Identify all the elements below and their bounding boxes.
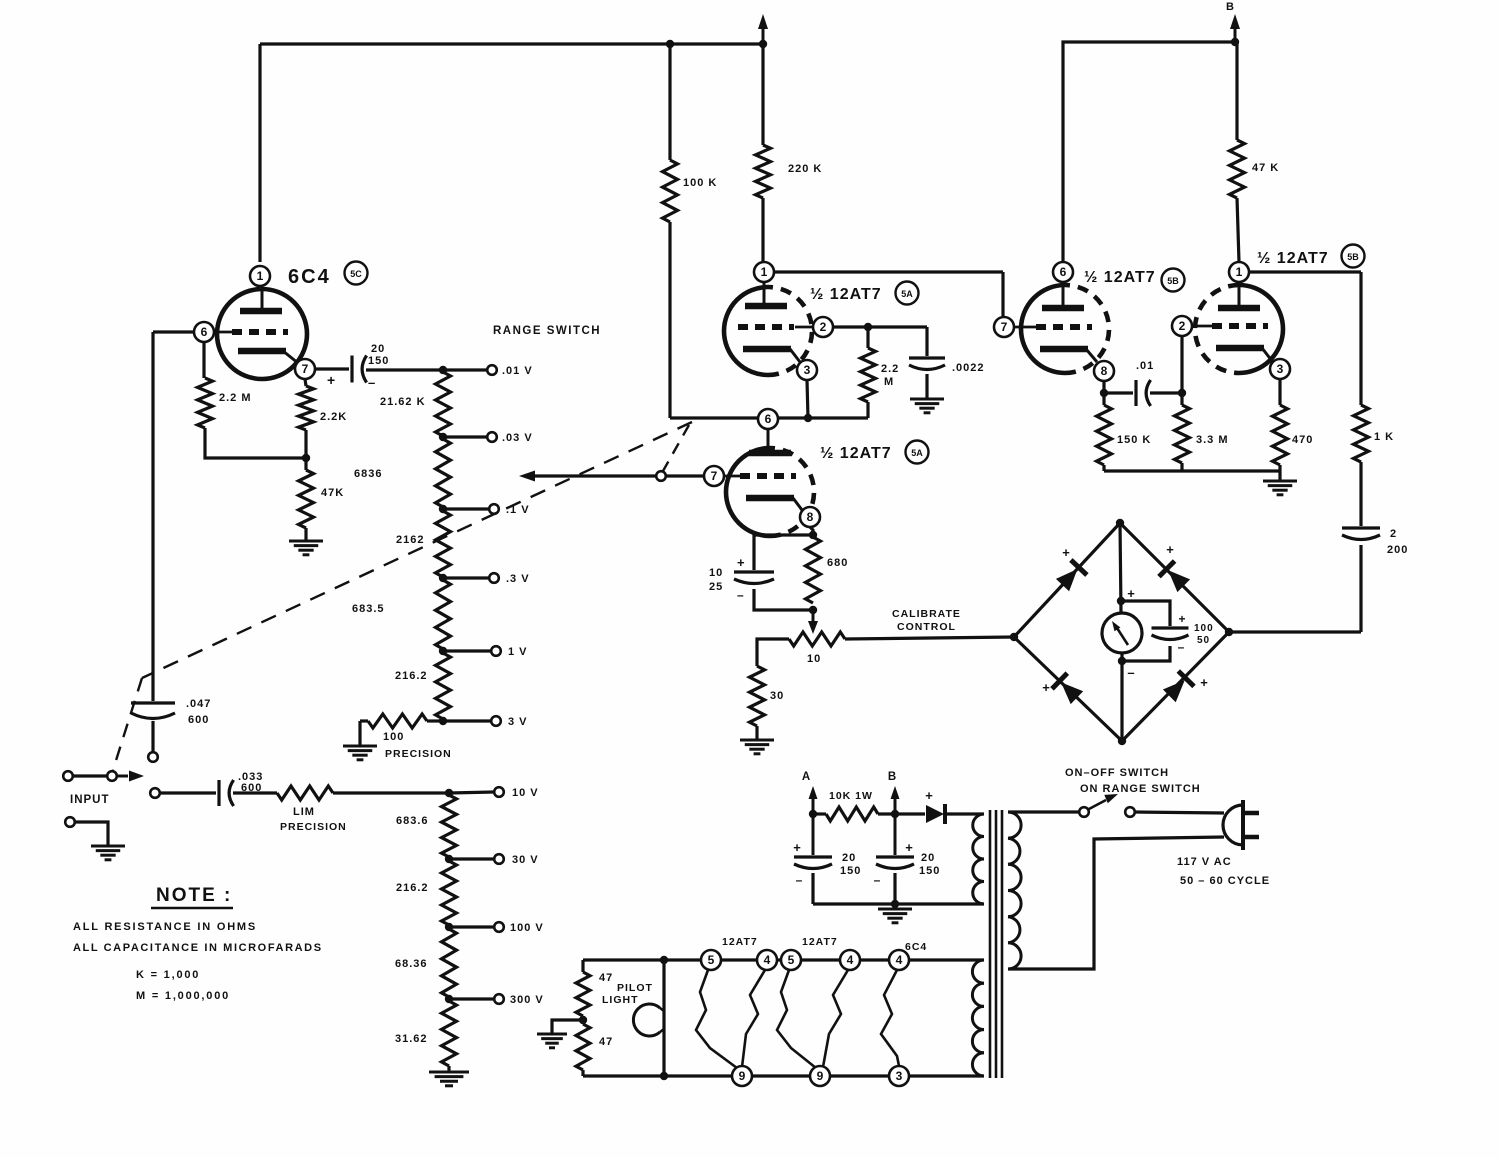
svg-text:+: +	[793, 840, 801, 855]
wire V3A plate to B+	[1063, 42, 1235, 262]
ground input	[91, 845, 125, 848]
wire meter bottom	[1120, 653, 1123, 661]
wire tap 3V	[443, 719, 491, 722]
svg-text:47: 47	[599, 972, 613, 984]
diode D5 rectifier	[926, 805, 944, 823]
wire primary top to switch	[1008, 810, 1079, 813]
wire pilot vertical	[662, 960, 665, 1076]
resistor 47K plate	[1235, 42, 1238, 140]
wire V3A cathode down	[1102, 381, 1105, 405]
svg-text:683.5: 683.5	[352, 603, 385, 615]
terminal 10V branch	[150, 788, 160, 798]
resistor 216.2	[436, 653, 451, 719]
wire input to wiper	[73, 774, 108, 777]
node B junction	[1231, 38, 1239, 46]
resistor 10K 1W	[826, 807, 878, 821]
label V3A 5B circle	[1162, 269, 1185, 292]
V3A pin 7	[994, 317, 1014, 337]
svg-text:½ 12AT7: ½ 12AT7	[820, 445, 892, 462]
terminal input ground	[65, 817, 75, 827]
heater pin 3 U1	[889, 1066, 909, 1086]
svg-text:.047: .047	[186, 698, 211, 710]
svg-text:+: +	[925, 788, 933, 803]
wire PS bottom bus	[813, 902, 984, 905]
svg-text:.3 V: .3 V	[506, 573, 530, 585]
svg-text:½ 12AT7: ½ 12AT7	[1084, 269, 1156, 286]
V2B pin 8	[800, 507, 820, 527]
heater pin 4 U1	[889, 950, 909, 970]
terminal 1V	[491, 646, 501, 656]
V3B pin 2	[1172, 316, 1192, 336]
node 3V junction	[439, 717, 447, 725]
node 100V junction	[445, 923, 453, 931]
V3A pin 8	[1094, 361, 1114, 381]
node pilot bottom	[660, 1072, 668, 1080]
meter M1	[1102, 613, 1142, 653]
wire V2A plate to V3A grid	[774, 270, 1003, 273]
svg-text:1: 1	[761, 265, 768, 279]
svg-text:20: 20	[921, 852, 935, 864]
diode D1 upper-left	[1056, 569, 1078, 591]
svg-text:2: 2	[820, 320, 827, 334]
svg-text:7: 7	[1001, 320, 1008, 334]
svg-text:220 K: 220 K	[788, 163, 822, 175]
wire V2B grid left with arrow	[534, 474, 704, 477]
V2A pin 3	[797, 360, 817, 380]
svg-text:PRECISION: PRECISION	[385, 748, 452, 760]
wire meter bottom to bridge bottom	[1120, 661, 1123, 741]
terminal .1V	[489, 504, 499, 514]
svg-text:1 K: 1 K	[1374, 431, 1394, 443]
wire V2A grid right	[833, 325, 927, 328]
svg-text:.03 V: .03 V	[502, 432, 533, 444]
svg-text:2.2 M: 2.2 M	[219, 392, 252, 404]
svg-text:2.2: 2.2	[881, 363, 899, 375]
potentiometer 10 CALIBRATE	[789, 632, 845, 646]
terminal .3V	[489, 573, 499, 583]
svg-text:+: +	[1042, 680, 1050, 695]
V2A grid	[795, 326, 814, 329]
U1 cathode	[238, 348, 286, 355]
wire D5 to transformer	[946, 812, 984, 815]
node 300V junction	[445, 995, 453, 1003]
U1 pin 7	[295, 359, 315, 379]
node PS ground junction	[891, 900, 899, 908]
svg-text:RANGE SWITCH: RANGE SWITCH	[493, 325, 601, 337]
node B junction bottom	[891, 810, 899, 818]
svg-text:216.2: 216.2	[396, 882, 429, 894]
node 680 bottom junction	[809, 606, 817, 614]
svg-text:3: 3	[1277, 362, 1284, 376]
wire feedback bus	[670, 416, 868, 419]
svg-text:+: +	[1062, 545, 1070, 560]
svg-text:M = 1,000,000: M = 1,000,000	[136, 990, 230, 1002]
wire meter cap hook	[1121, 601, 1170, 626]
wire input ground	[75, 822, 108, 846]
capacitor .0022	[909, 356, 945, 359]
B supply arrow	[1234, 26, 1237, 42]
svg-text:+: +	[1200, 675, 1208, 690]
svg-text:5B: 5B	[1167, 276, 1179, 286]
capacitor C8 20/150	[812, 814, 815, 855]
node A junction	[809, 810, 817, 818]
svg-text:–: –	[874, 873, 881, 887]
svg-text:B: B	[1226, 1, 1234, 13]
V2A pin 2	[813, 317, 833, 337]
svg-text:½ 12AT7: ½ 12AT7	[1257, 250, 1329, 267]
svg-text:2: 2	[1390, 528, 1397, 540]
resistor 1K	[1354, 405, 1369, 462]
node pilot top	[660, 956, 668, 964]
svg-text:25: 25	[709, 581, 723, 593]
terminal .03V	[487, 432, 497, 442]
svg-text:21.62 K: 21.62 K	[380, 396, 426, 408]
svg-text:30 V: 30 V	[512, 854, 539, 866]
filament V3 a	[777, 970, 816, 1068]
capacitor C3 .033/600	[217, 780, 220, 806]
ground under 100 precision	[343, 745, 377, 748]
wire pot to bridge	[845, 637, 1014, 639]
terminal 3V	[491, 716, 501, 726]
wire chain bottom	[447, 1066, 450, 1072]
capacitor C2 .047/600	[131, 701, 175, 704]
svg-text:5A: 5A	[901, 289, 913, 299]
wire U1 pin6 down to R 2.2M	[202, 342, 205, 378]
resistor 31.62	[442, 1001, 457, 1066]
svg-text:1: 1	[257, 269, 264, 283]
terminal 10V	[494, 787, 504, 797]
bridge arm upper-left	[1014, 523, 1120, 637]
wire C8 bottom	[811, 873, 814, 904]
resistor 680	[806, 537, 821, 603]
svg-text:9: 9	[739, 1069, 746, 1083]
heater pin 4 V3	[840, 950, 860, 970]
terminal input hot	[63, 771, 73, 781]
svg-text:K = 1,000: K = 1,000	[136, 969, 200, 981]
terminal 300V	[494, 994, 504, 1004]
svg-text:150: 150	[368, 355, 389, 367]
resistor 3.3M	[1175, 405, 1190, 463]
resistor 47 lower	[576, 1024, 590, 1070]
wire B+ bus top-left	[260, 42, 763, 45]
svg-text:6: 6	[1060, 265, 1067, 279]
resistor 2.2K	[299, 386, 314, 430]
svg-text:4: 4	[847, 953, 854, 967]
resistor 150K	[1097, 405, 1112, 465]
heater pin 9 V2	[732, 1066, 752, 1086]
svg-text:5: 5	[708, 953, 715, 967]
wire bridge top to meter	[1120, 523, 1121, 613]
V2A cathode	[743, 346, 791, 353]
svg-text:150 K: 150 K	[1117, 434, 1151, 446]
svg-text:5: 5	[788, 953, 795, 967]
label V2A 5A circle	[896, 282, 919, 305]
wire cathode bottom bus	[1104, 469, 1280, 472]
V3B plate	[1238, 283, 1241, 308]
svg-text:47 K: 47 K	[1252, 162, 1279, 174]
wire heater bottom bus	[583, 1074, 984, 1077]
capacitor C1 20/150 coupling	[350, 356, 353, 383]
svg-text:½ 12AT7: ½ 12AT7	[810, 286, 882, 303]
wire tap .3V	[443, 576, 489, 579]
A arrow	[809, 786, 818, 799]
wire tap 10V	[449, 792, 494, 793]
wire heater left top	[581, 960, 584, 972]
capacitor C6 .01	[1134, 380, 1137, 406]
wire 47 mid	[581, 1016, 584, 1024]
capacitor C7 2/200	[1342, 526, 1380, 529]
diode D3 lower-left	[1061, 682, 1083, 704]
wire C7 to bridge right	[1359, 545, 1362, 632]
resistor 216.2 lower	[442, 861, 457, 925]
bridge arm lower-left	[1014, 637, 1122, 741]
svg-text:CALIBRATE: CALIBRATE	[892, 608, 961, 620]
on-off switch	[1079, 807, 1089, 817]
V2B cathode	[746, 495, 794, 502]
terminal C2 bottom	[148, 752, 158, 762]
svg-text:10: 10	[709, 567, 723, 579]
wire V3B grid down	[1180, 336, 1183, 405]
svg-text:1: 1	[1236, 265, 1243, 279]
resistor 2.2M grid	[866, 327, 869, 348]
svg-text:8: 8	[1101, 364, 1108, 378]
ground under .0022	[910, 398, 944, 401]
ground power supply	[878, 908, 912, 911]
svg-text:10K 1W: 10K 1W	[829, 790, 873, 802]
wire tap 1V	[443, 649, 491, 652]
wire C3 to LIM	[233, 791, 277, 794]
svg-text:PRECISION: PRECISION	[280, 821, 347, 833]
wire U1 pin7 to 2.2K	[305, 379, 306, 386]
wire .0022 down	[925, 327, 928, 356]
svg-text:5A: 5A	[911, 448, 923, 458]
svg-text:50: 50	[1197, 635, 1210, 646]
dashed linkage long	[142, 422, 692, 678]
switch wiper arrow	[117, 775, 128, 778]
svg-text:30: 30	[770, 690, 784, 702]
svg-text:470: 470	[1292, 434, 1313, 446]
terminal .01V	[487, 365, 497, 375]
filament V2 b	[742, 970, 765, 1067]
capacitor C9 20/150	[894, 814, 897, 855]
bridge arm lower-right	[1122, 632, 1229, 741]
wire .01 right	[1150, 391, 1182, 394]
wire tap .01V	[443, 368, 487, 371]
node bridge left	[1010, 633, 1018, 641]
capacitor C5 100/50	[1152, 626, 1189, 629]
resistor 100K	[668, 44, 671, 160]
resistor 2162	[436, 511, 451, 577]
filament U1	[881, 970, 899, 1066]
svg-text:6: 6	[201, 325, 208, 339]
svg-text:300 V: 300 V	[510, 994, 544, 1006]
diode D4 lower-right	[1163, 680, 1185, 702]
resistor 47K cathode	[299, 470, 314, 528]
T1 heater winding	[972, 960, 984, 983]
tube U1 6C4 envelope	[217, 289, 307, 379]
tube V2B half 12AT7 envelope	[726, 448, 770, 536]
svg-text:2: 2	[1179, 319, 1186, 333]
svg-text:–: –	[1178, 640, 1185, 654]
svg-text:INPUT: INPUT	[70, 794, 110, 806]
node .01V junction	[439, 366, 447, 374]
wire .0022 to ground	[925, 374, 928, 399]
wire V2B pin8 down	[810, 527, 813, 537]
ground right section	[1263, 480, 1297, 483]
filament V3 b	[823, 970, 848, 1067]
node bridge top	[1116, 519, 1124, 527]
wire tap .1V	[443, 507, 489, 510]
svg-text:LIM: LIM	[293, 806, 315, 818]
svg-text:100 K: 100 K	[683, 177, 717, 189]
U1 pin 6	[194, 322, 214, 342]
V3B grid	[1192, 325, 1213, 328]
svg-text:8: 8	[807, 510, 814, 524]
svg-text:600: 600	[188, 714, 209, 726]
svg-text:ON–OFF SWITCH: ON–OFF SWITCH	[1065, 767, 1169, 779]
U1 plate	[261, 288, 264, 311]
svg-text:3: 3	[896, 1069, 903, 1083]
heater pin 4 V2	[757, 950, 777, 970]
V3A cathode	[1040, 346, 1088, 353]
svg-text:683.6: 683.6	[396, 815, 429, 827]
svg-text:+: +	[905, 840, 913, 855]
node 47 junction	[579, 1016, 587, 1024]
ground heater	[537, 1033, 567, 1036]
resistor 68.36	[442, 929, 457, 997]
node cathode junction	[302, 454, 310, 462]
svg-text:ON RANGE SWITCH: ON RANGE SWITCH	[1080, 783, 1201, 795]
ground under 47K	[289, 540, 323, 543]
tube V2A half 12AT7 envelope	[724, 287, 768, 375]
node bridge bottom	[1118, 737, 1126, 745]
svg-text:20: 20	[842, 852, 856, 864]
svg-text:117 V AC: 117 V AC	[1177, 856, 1232, 868]
node grid junction 2.2M	[864, 323, 872, 331]
svg-text:3.3 M: 3.3 M	[1196, 434, 1229, 446]
svg-text:PILOT: PILOT	[617, 982, 653, 994]
svg-text:6: 6	[765, 412, 772, 426]
svg-text:31.62: 31.62	[395, 1033, 428, 1045]
node .1V junction	[439, 505, 447, 513]
label V2B 5A circle	[906, 441, 929, 464]
svg-text:.0022: .0022	[952, 362, 985, 374]
node V2A cathode junction	[804, 414, 812, 422]
resistor 2.2M	[198, 378, 213, 428]
pot wiper arrow	[812, 610, 815, 626]
U1 grid	[214, 331, 234, 334]
resistor 470	[1273, 405, 1288, 465]
wire hook to C4	[754, 535, 813, 570]
wire 47 junction to ground	[552, 1020, 583, 1034]
wire C4 to pot junction	[754, 589, 813, 610]
svg-text:47: 47	[599, 1036, 613, 1048]
svg-text:10 V: 10 V	[512, 787, 539, 799]
svg-text:68.36: 68.36	[395, 958, 428, 970]
svg-text:100 V: 100 V	[510, 922, 544, 934]
wire C1 to range chain	[366, 368, 443, 371]
wire 1K to C7	[1359, 462, 1362, 526]
V2B grid	[723, 475, 742, 478]
wire C9 bottom	[893, 873, 896, 904]
svg-text:+: +	[737, 555, 745, 570]
svg-text:–: –	[1127, 665, 1134, 680]
V3B pin 1	[1229, 262, 1249, 282]
svg-text:6C4: 6C4	[288, 266, 331, 288]
B+ arrow above 220K	[762, 26, 765, 44]
svg-text:B: B	[888, 771, 896, 783]
svg-text:2162: 2162	[396, 534, 424, 546]
node bridge right	[1225, 628, 1233, 636]
label 5C circle	[345, 262, 368, 285]
V2B pin 7	[704, 466, 724, 486]
node .03V junction	[439, 433, 447, 441]
svg-text:ALL RESISTANCE IN OHMS: ALL RESISTANCE IN OHMS	[73, 921, 257, 933]
heater pin 5 V2	[701, 950, 721, 970]
V2B plate	[767, 430, 770, 453]
wire to C3	[160, 791, 216, 794]
svg-text:1 V: 1 V	[508, 646, 528, 658]
V3A pin 6	[1053, 262, 1073, 282]
ground chain bottom	[429, 1071, 469, 1074]
V3B cathode	[1216, 345, 1264, 352]
resistor 30	[750, 666, 765, 726]
wire 2.2K to junction	[304, 430, 307, 458]
V3A plate	[1062, 283, 1065, 308]
wire V3B cathode down	[1278, 379, 1281, 405]
svg-text:2.2K: 2.2K	[320, 411, 347, 423]
wire bus to ground	[1278, 471, 1281, 481]
wire U1 pin7 to C1	[315, 367, 349, 370]
wire .01 left	[1104, 391, 1133, 394]
tube V3B half 12AT7 envelope	[1239, 285, 1283, 373]
svg-text:4: 4	[764, 953, 771, 967]
svg-text:NOTE :: NOTE :	[156, 885, 232, 906]
svg-text:4: 4	[896, 953, 903, 967]
wire tap 30V	[449, 857, 494, 860]
svg-text:+: +	[1127, 586, 1135, 601]
resistor 683.5	[436, 580, 451, 649]
wire switch to plug	[1135, 812, 1224, 813]
wire V3B plate right	[1249, 270, 1361, 273]
svg-text:3: 3	[804, 363, 811, 377]
svg-text:150: 150	[840, 865, 861, 877]
V2A pin 1	[754, 262, 774, 282]
wire tap 300V	[449, 997, 494, 1000]
svg-text:6836: 6836	[354, 468, 382, 480]
resistor 683.6	[442, 795, 457, 857]
terminal switch wiper	[107, 771, 117, 781]
svg-text:+: +	[1178, 612, 1185, 626]
label V3B 5B circle	[1342, 245, 1365, 268]
svg-text:+: +	[327, 372, 335, 388]
bridge arm upper-right	[1120, 523, 1229, 632]
svg-text:ALL CAPACITANCE IN MICROFAR: ALL CAPACITANCE IN MICROFARADS	[73, 942, 323, 954]
heater pin 5 V3	[781, 950, 801, 970]
node junction at 100K top	[666, 40, 674, 48]
node 10V junction	[445, 789, 453, 797]
svg-text:12AT7: 12AT7	[802, 936, 838, 948]
resistor LIM precision	[277, 786, 333, 800]
svg-text:–: –	[737, 588, 744, 602]
resistor 6836	[436, 439, 451, 507]
wire 100 precision to ground	[358, 721, 361, 746]
resistor 21.62K	[436, 372, 451, 436]
wire tap .03V	[443, 435, 487, 438]
terminal 100V	[494, 922, 504, 932]
node .01 right junction	[1178, 389, 1186, 397]
wire B to D5	[895, 812, 925, 815]
